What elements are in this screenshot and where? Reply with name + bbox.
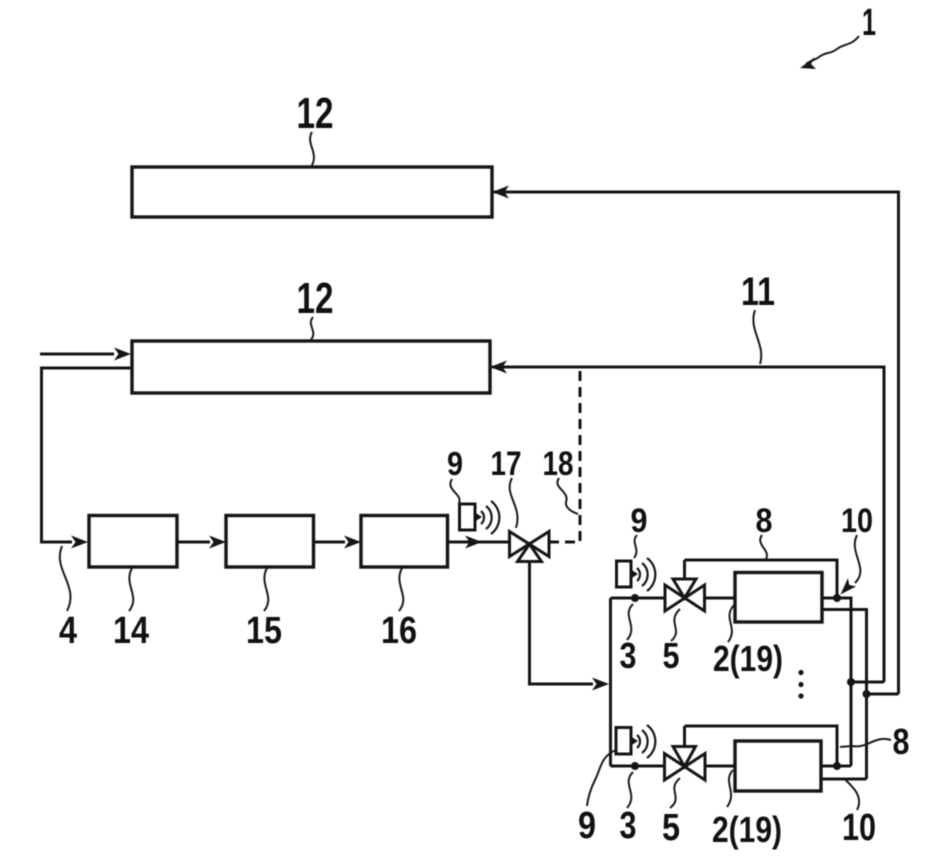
svg-text:2(19): 2(19) bbox=[713, 638, 783, 679]
label 5 circuit A bbox=[663, 609, 681, 676]
label 14 bbox=[113, 568, 149, 652]
sensor 9 middle (wireless) bbox=[460, 501, 500, 534]
circuit B main supply wire bbox=[611, 765, 665, 768]
label 2(19) circuit A bbox=[713, 605, 783, 679]
label 5 circuit B bbox=[662, 778, 680, 849]
node riser junction A bbox=[847, 678, 855, 686]
box 16 (heater) bbox=[361, 516, 448, 568]
label 10 circuit A with arrow to node bbox=[841, 502, 874, 595]
sensor 9 circuit A (wireless) bbox=[617, 558, 656, 591]
circuit B return wire 1 bbox=[821, 765, 851, 768]
box 15 bbox=[226, 516, 314, 568]
label 2(19) circuit B bbox=[712, 770, 782, 850]
label 12 top bbox=[297, 89, 334, 167]
svg-text:3: 3 bbox=[620, 805, 637, 847]
label 9 middle bbox=[447, 445, 463, 503]
label 18 bbox=[543, 445, 579, 514]
box 12 middle (heat consumer) bbox=[132, 341, 490, 393]
wire link to top riser bbox=[867, 693, 899, 696]
arrowhead inlet bbox=[114, 348, 131, 361]
svg-text:10: 10 bbox=[842, 807, 876, 849]
circuit A return wire 1 bbox=[822, 598, 851, 766]
svg-text:9: 9 bbox=[447, 445, 463, 482]
label 3 circuit B bbox=[620, 772, 637, 847]
label 10 circuit B bbox=[842, 778, 876, 849]
svg-text:8: 8 bbox=[893, 721, 910, 762]
arrowhead into top box 12 bbox=[492, 186, 509, 199]
svg-text:2(19): 2(19) bbox=[712, 809, 782, 850]
label 17 bbox=[491, 445, 522, 528]
svg-text:4: 4 bbox=[59, 610, 77, 652]
supply riser vertical bbox=[609, 598, 612, 766]
svg-text:14: 14 bbox=[113, 610, 149, 652]
svg-text:9: 9 bbox=[578, 805, 596, 847]
svg-text:15: 15 bbox=[246, 610, 282, 652]
radiator 2(19) circuit A bbox=[735, 573, 822, 623]
arrowhead into box 15 bbox=[209, 536, 226, 549]
wire inlet into middle box 12 bbox=[40, 353, 114, 356]
ellipsis dots bbox=[798, 670, 803, 699]
circuit A main supply wire bbox=[611, 597, 666, 600]
label 3 circuit A bbox=[620, 604, 637, 676]
svg-text:12: 12 bbox=[297, 89, 334, 138]
arrowhead on wire before valve 17 bbox=[465, 536, 482, 549]
wire box16 to valve 17 bbox=[448, 541, 510, 544]
wire valve 17 down and right to supply riser bbox=[530, 562, 594, 685]
wire valve 5A to radiator A bbox=[705, 597, 736, 600]
label 1 bbox=[800, 2, 876, 69]
node 3 circuit B bbox=[631, 762, 639, 770]
label 11 bbox=[741, 270, 775, 364]
node bypass A bbox=[833, 594, 841, 602]
wire outlet from middle box 12 down to box 14 bbox=[42, 368, 133, 542]
valve 17 (3-way, bottom port) bbox=[510, 532, 550, 562]
bypass 8 circuit A bbox=[685, 560, 838, 598]
label 9 circuit B bbox=[578, 750, 616, 847]
valve 5 circuit B (3-way, top port) bbox=[665, 726, 706, 780]
svg-text:5: 5 bbox=[662, 807, 680, 849]
wire box15 to box16 bbox=[314, 541, 346, 544]
box 12 top (heat consumer) bbox=[132, 167, 492, 217]
label 9 circuit A bbox=[631, 502, 648, 558]
svg-text:3: 3 bbox=[620, 635, 637, 676]
label 4 bbox=[59, 546, 77, 652]
wire return line to middle box 12 bbox=[492, 367, 884, 682]
label 8 circuit B bbox=[840, 721, 910, 762]
svg-text:5: 5 bbox=[663, 635, 680, 676]
label 16 bbox=[381, 568, 417, 652]
sensor 9 circuit B (wireless) bbox=[616, 725, 655, 758]
wire box14 to box15 bbox=[177, 541, 210, 544]
arrowhead into box 16 bbox=[344, 536, 361, 549]
node 3 circuit A bbox=[631, 594, 639, 602]
arrowhead into middle box 12 bbox=[490, 361, 507, 374]
svg-text:11: 11 bbox=[741, 270, 775, 314]
label 12 middle bbox=[297, 274, 334, 341]
svg-text:8: 8 bbox=[756, 502, 773, 540]
svg-text:1: 1 bbox=[862, 2, 876, 44]
arrowhead into supply riser bbox=[592, 678, 609, 691]
bypass 8 circuit B bbox=[685, 726, 838, 766]
dashed control line 18 bbox=[549, 369, 580, 543]
radiator 2(19) circuit B bbox=[735, 741, 821, 791]
wire return line to top box 12 bbox=[494, 192, 899, 694]
svg-text:10: 10 bbox=[841, 502, 873, 540]
svg-text:16: 16 bbox=[381, 610, 417, 652]
circuit A return wire 2 bbox=[822, 610, 867, 780]
svg-text:9: 9 bbox=[631, 502, 648, 540]
box 14 (pump) bbox=[89, 516, 177, 568]
wire valve 5B to radiator B bbox=[705, 765, 735, 768]
svg-text:17: 17 bbox=[491, 445, 522, 483]
label 15 bbox=[246, 568, 282, 652]
wire link to middle riser bbox=[851, 681, 884, 684]
svg-text:12: 12 bbox=[297, 274, 334, 323]
svg-text:18: 18 bbox=[543, 445, 574, 483]
node bypass B bbox=[833, 762, 841, 770]
label 8 circuit A bbox=[756, 502, 773, 559]
valve 5 circuit A (3-way, top port) bbox=[665, 560, 705, 611]
node riser junction B bbox=[863, 690, 871, 698]
circuit B return wire 2 bbox=[821, 778, 867, 781]
arrowhead into box 14 bbox=[71, 536, 88, 549]
